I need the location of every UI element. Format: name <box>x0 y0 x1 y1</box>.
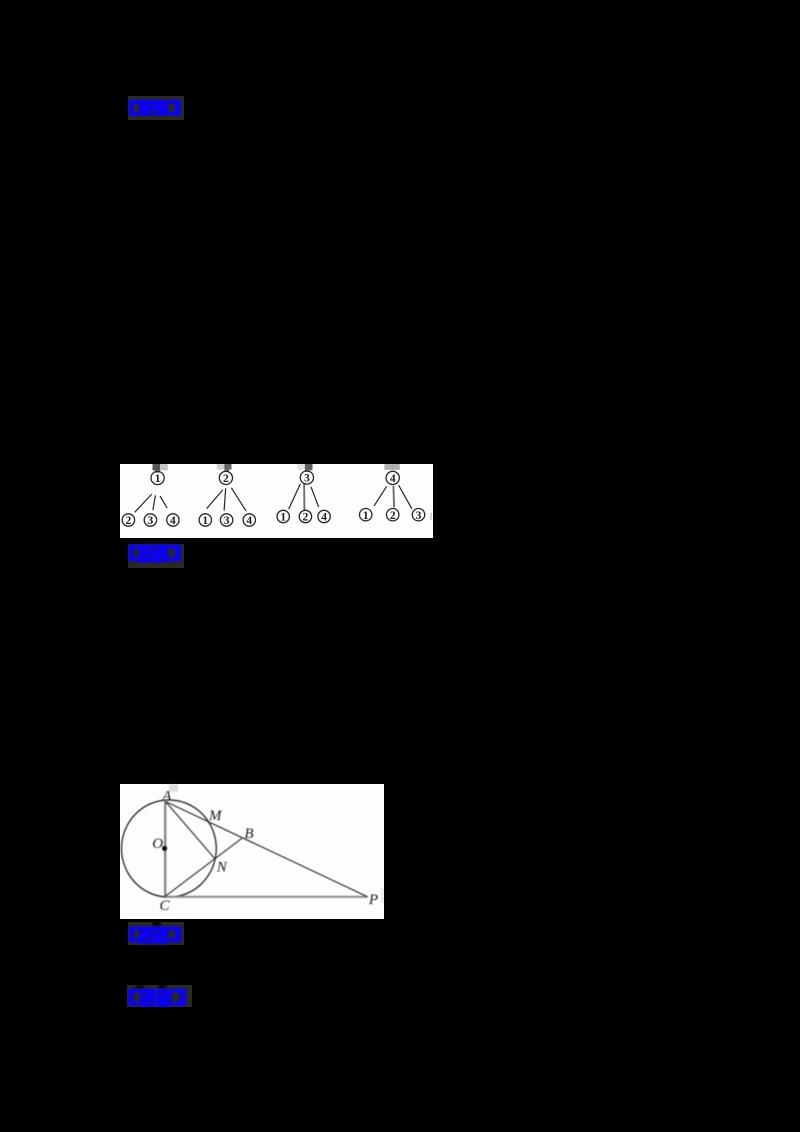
tree3 digits <box>280 472 327 523</box>
thick base line C-P <box>164 896 367 898</box>
figure2: circle geometry <box>120 784 384 919</box>
svg-text:1: 1 <box>202 515 208 527</box>
tree4 digits <box>362 473 421 522</box>
tree2 circles <box>199 471 255 526</box>
tree3 circles <box>277 470 330 522</box>
svg-text:A: A <box>161 789 172 805</box>
label tag4 box <box>127 985 192 1008</box>
svg-text:1: 1 <box>154 473 160 485</box>
svg-text:C: C <box>159 898 170 914</box>
tree1 circles <box>122 471 179 526</box>
svg-text:3: 3 <box>304 472 310 484</box>
gray tab above tree1 root <box>152 464 160 470</box>
svg-text:O: O <box>152 836 163 852</box>
chord A-N <box>165 802 214 859</box>
gray tab above tree3 root <box>297 464 305 470</box>
svg-text:3: 3 <box>223 515 229 527</box>
svg-text:4: 4 <box>170 515 176 527</box>
figure1: tree diagrams <box>120 464 434 538</box>
tree3 branch lines <box>288 483 318 510</box>
tree4 branch lines <box>374 485 412 509</box>
svg-text:1: 1 <box>362 509 368 521</box>
svg-text:M: M <box>207 808 222 824</box>
svg-text:4: 4 <box>389 473 395 485</box>
svg-text:1: 1 <box>280 511 286 523</box>
label tag1 box <box>128 96 184 120</box>
gray artifact bar right <box>381 888 383 903</box>
gray artifact bar right <box>430 512 432 519</box>
gray tab above tree4 root <box>384 464 399 470</box>
svg-text:2: 2 <box>125 515 131 527</box>
svg-text:2: 2 <box>302 511 308 523</box>
label tag2 box <box>128 544 185 568</box>
label tag3 box <box>128 922 185 945</box>
gray tab above A <box>169 785 178 792</box>
tree2 branch lines <box>206 487 246 510</box>
thick chord A-C <box>164 802 166 897</box>
tree1 digits <box>125 473 175 527</box>
svg-text:B: B <box>244 826 253 842</box>
secant line A-M-B-P <box>165 802 367 897</box>
svg-text:2: 2 <box>389 509 395 521</box>
svg-text:2: 2 <box>223 473 229 485</box>
svg-text:P: P <box>367 892 377 908</box>
tree4 circles <box>359 471 424 521</box>
svg-text:3: 3 <box>415 509 421 521</box>
svg-text:3: 3 <box>147 515 153 527</box>
svg-text:4: 4 <box>321 511 327 523</box>
tree1 branch lines <box>134 494 166 512</box>
circle (center O) <box>121 800 216 897</box>
gray tab above tree2 root <box>216 464 224 470</box>
tree2 digits <box>202 473 252 527</box>
center dot O <box>162 846 167 851</box>
line C-N-B <box>164 838 242 897</box>
svg-text:4: 4 <box>246 515 252 527</box>
svg-text:N: N <box>215 859 227 875</box>
